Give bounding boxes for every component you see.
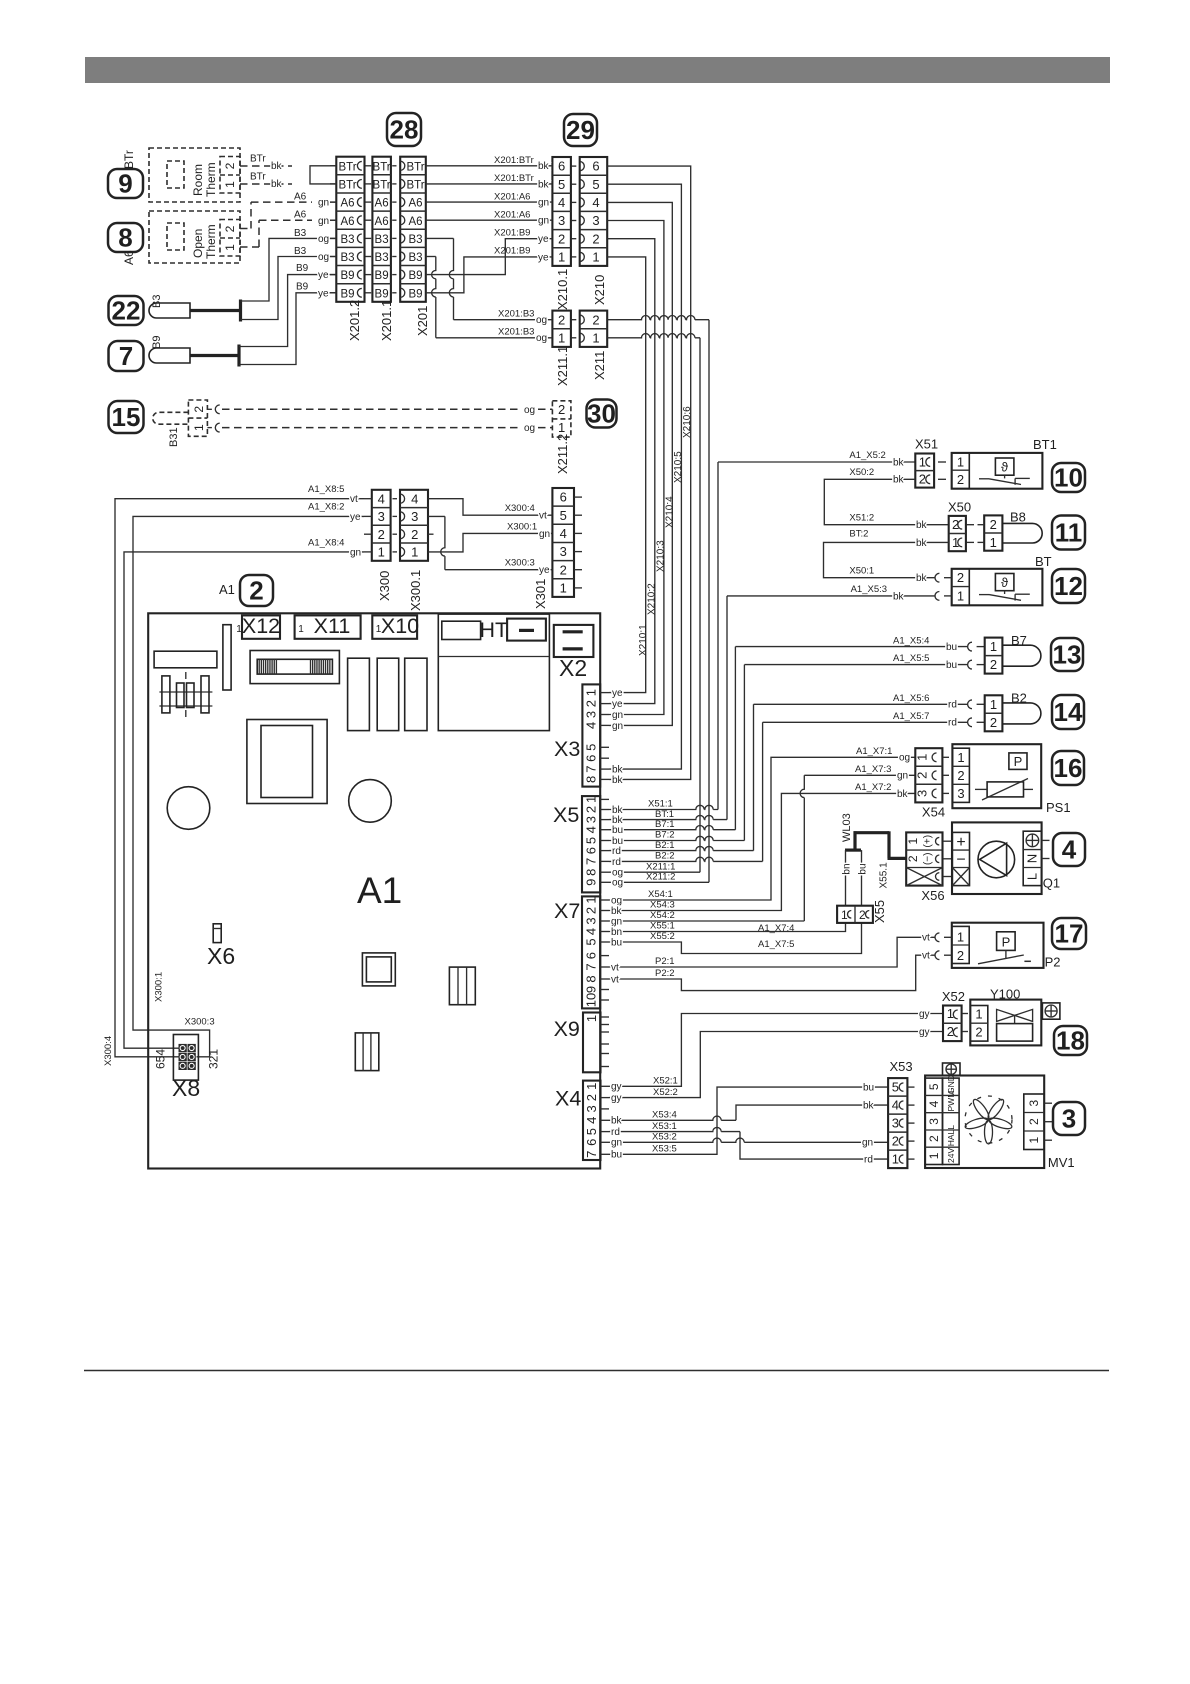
component tall rect 3 (405, 658, 427, 730)
svg-text:bk: bk (916, 573, 928, 584)
room thermostat box (149, 148, 240, 202)
svg-text:HT: HT (480, 618, 509, 642)
svg-text:3: 3 (584, 917, 599, 924)
svg-text:vt: vt (922, 933, 930, 944)
svg-text:1: 1 (906, 838, 920, 845)
svg-text:vt: vt (611, 962, 619, 973)
svg-text:A6: A6 (294, 192, 307, 203)
wire X201:B3 row6 to X211.1:1 (426, 256, 436, 258)
svg-text:gn: gn (612, 710, 623, 721)
svg-text:Room: Room (191, 164, 205, 196)
svg-text:X2: X2 (559, 655, 587, 681)
svg-text:1: 1 (592, 330, 599, 345)
svg-text:1: 1 (990, 535, 997, 550)
svg-text:B3: B3 (408, 252, 422, 264)
wire BTr pin2 (bk) (240, 165, 292, 167)
badge 3 (1053, 1102, 1085, 1135)
wire B3 og row6 (241, 257, 337, 320)
svg-text:2: 2 (378, 527, 385, 542)
open therm pin header 1 2 (220, 220, 240, 257)
svg-text:1: 1 (957, 930, 964, 945)
svg-text:X201.1: X201.1 (379, 300, 394, 341)
svg-text:X211:2: X211:2 (646, 872, 675, 883)
wire B3 og row5 (241, 238, 337, 301)
component 3-cell B (355, 1033, 379, 1071)
svg-text:gn: gn (539, 529, 550, 540)
svg-text:A1_X5:2: A1_X5:2 (849, 450, 885, 461)
connector X201.2 (336, 157, 364, 302)
svg-text:bk: bk (916, 520, 928, 531)
svg-text:BTr: BTr (406, 180, 424, 192)
svg-text:5: 5 (584, 837, 599, 844)
svg-text:5: 5 (584, 744, 599, 751)
svg-text:9: 9 (584, 986, 599, 993)
svg-text:3: 3 (584, 711, 599, 718)
svg-text:1: 1 (957, 750, 964, 765)
open therm box (149, 211, 240, 263)
svg-text:4: 4 (584, 826, 599, 833)
wire X4:2 X52:2 gy (609, 1032, 943, 1098)
wire X201:BTr row1 (426, 165, 553, 167)
svg-text:X210:5: X210:5 (673, 451, 684, 483)
svg-text:A6: A6 (340, 216, 354, 228)
svg-text:A6: A6 (375, 216, 389, 228)
component slide connector (250, 651, 339, 684)
svg-text:A1_X8:4: A1_X8:4 (308, 537, 344, 548)
svg-text:rd: rd (948, 700, 957, 711)
wire A1_X8:2 ye to X8:2 (133, 516, 364, 1056)
svg-text:8: 8 (118, 223, 132, 253)
connector X211.1 (552, 311, 571, 347)
svg-text:B2:2: B2:2 (655, 851, 675, 862)
wire X5:4 B7:1 bu (609, 826, 735, 830)
svg-text:B3: B3 (340, 234, 354, 246)
svg-text:2: 2 (957, 768, 964, 783)
svg-text:A6: A6 (294, 210, 307, 221)
svg-text:og: og (318, 252, 329, 263)
svg-text:vt: vt (350, 494, 358, 505)
svg-text:X55: X55 (872, 900, 887, 923)
svg-text:BT: BT (1035, 554, 1052, 569)
svg-text:og: og (318, 234, 329, 245)
svg-text:B3: B3 (294, 246, 307, 257)
svg-text:1: 1 (558, 330, 565, 345)
svg-text:X5: X5 (553, 803, 579, 827)
svg-text:X53:1: X53:1 (652, 1121, 677, 1132)
connector X210 (580, 157, 608, 266)
svg-text:1: 1 (957, 455, 964, 470)
connector X9 (583, 1013, 601, 1073)
svg-text:1: 1 (990, 697, 997, 712)
svg-text:X54: X54 (922, 805, 945, 820)
svg-text:B9: B9 (340, 270, 354, 282)
svg-text:MV1: MV1 (1048, 1155, 1075, 1170)
svg-text:B2:1: B2:1 (655, 840, 675, 851)
pump unit Q1 connector X55.1 (906, 832, 942, 885)
svg-text:BTr: BTr (373, 161, 391, 173)
pump Q1 (952, 822, 1042, 894)
wire BTr pin1 (bk) (240, 183, 292, 185)
svg-text:1: 1 (915, 754, 930, 761)
svg-text:X300: X300 (377, 571, 392, 601)
badge 18 (1054, 1026, 1087, 1055)
svg-text:bu: bu (611, 937, 622, 948)
connector MV1 right (1024, 1094, 1044, 1150)
svg-text:7: 7 (584, 1151, 599, 1158)
svg-text:3: 3 (927, 1118, 941, 1125)
svg-text:X52:1: X52:1 (653, 1076, 678, 1087)
svg-text:B3: B3 (375, 252, 389, 264)
svg-text:og: og (524, 423, 535, 434)
svg-text:5: 5 (560, 508, 567, 523)
svg-text:1: 1 (583, 796, 598, 803)
svg-text:2: 2 (927, 1135, 941, 1142)
svg-text:1: 1 (892, 1152, 899, 1167)
svg-text:1: 1 (957, 588, 964, 603)
svg-text:X55:2: X55:2 (650, 931, 675, 942)
wire X210:5 (607, 184, 681, 769)
svg-text:X210: X210 (592, 275, 607, 305)
svg-text:5: 5 (592, 177, 599, 192)
svg-text:11: 11 (1055, 518, 1083, 548)
wire X5:5 B7:2 bu (609, 836, 744, 840)
svg-text:bk: bk (271, 179, 283, 190)
wire X201:B9 row8 to X210.1:1 (426, 257, 553, 293)
svg-text:12: 12 (1054, 571, 1083, 601)
svg-text:A1_X8:5: A1_X8:5 (308, 484, 344, 495)
svg-text:HALL: HALL (946, 1125, 956, 1147)
connector X7 (582, 896, 600, 1008)
svg-text:L: L (1025, 873, 1040, 880)
svg-text:X300:4: X300:4 (103, 1036, 114, 1066)
svg-text:X201:B3: X201:B3 (498, 327, 534, 338)
svg-text:bk: bk (611, 906, 623, 917)
svg-text:6: 6 (558, 159, 565, 174)
svg-text:7: 7 (584, 765, 599, 772)
svg-text:A1_X7:1: A1_X7:1 (856, 746, 892, 757)
svg-text:7: 7 (584, 963, 599, 970)
fan MV1 (925, 1076, 1044, 1169)
svg-text:2: 2 (990, 517, 997, 532)
svg-text:7: 7 (119, 341, 133, 371)
svg-text:B9: B9 (151, 336, 163, 349)
svg-text:2: 2 (592, 231, 599, 246)
svg-text:2: 2 (558, 231, 565, 246)
svg-text:2: 2 (223, 162, 237, 169)
svg-text:2: 2 (411, 527, 418, 542)
svg-text:bk: bk (612, 775, 624, 786)
svg-text:16: 16 (1054, 753, 1083, 783)
wire X201:B3 row5 to X211.1:2 (426, 237, 454, 239)
svg-text:10: 10 (1054, 463, 1083, 493)
svg-text:2: 2 (906, 855, 920, 862)
HT block (438, 614, 549, 731)
svg-text:X3: X3 (554, 737, 580, 761)
svg-text:6: 6 (584, 952, 599, 959)
svg-text:X51: X51 (915, 437, 938, 452)
svg-text:vt: vt (539, 511, 547, 522)
connector X201 (400, 157, 426, 302)
wire X300:1 gn to X301:4 (428, 533, 552, 552)
wire X201:A6 row4 (426, 219, 553, 221)
svg-text:X301: X301 (533, 579, 548, 609)
svg-text:4: 4 (592, 195, 599, 210)
badge 8 (108, 223, 143, 252)
svg-text:A6: A6 (375, 198, 389, 210)
component X6 (213, 924, 221, 943)
svg-text:X201:A6: X201:A6 (494, 209, 530, 220)
svg-text:A6: A6 (408, 198, 422, 210)
svg-text:X300:3: X300:3 (185, 1017, 215, 1028)
svg-text:gn: gn (611, 916, 622, 927)
svg-text:1: 1 (990, 639, 997, 654)
svg-text:B7:1: B7:1 (655, 819, 675, 830)
svg-text:1: 1 (192, 424, 206, 431)
connector X10 (372, 615, 417, 638)
svg-text:1: 1 (927, 1152, 941, 1159)
svg-text:X201:B9: X201:B9 (494, 246, 530, 257)
svg-text:X50:2: X50:2 (849, 467, 874, 478)
svg-text:17: 17 (1055, 919, 1084, 949)
stub X300.1:2 (428, 533, 434, 535)
badge 22 (109, 296, 144, 325)
svg-text:BTr: BTr (338, 180, 356, 192)
footer rule (84, 1370, 1109, 1372)
svg-text:2: 2 (919, 472, 926, 487)
svg-text:5: 5 (927, 1083, 941, 1090)
svg-text:B3: B3 (294, 228, 307, 239)
svg-text:X201: X201 (415, 306, 430, 336)
svg-text:X12: X12 (242, 614, 280, 638)
svg-text:2: 2 (584, 1094, 599, 1101)
svg-text:X201:B3: X201:B3 (498, 309, 534, 320)
svg-text:A6: A6 (340, 198, 354, 210)
svg-text:X51:2: X51:2 (849, 513, 874, 524)
component tall rect 2 (377, 658, 399, 730)
badge 16 (1052, 751, 1084, 785)
svg-text:gn: gn (318, 216, 329, 227)
wire X5:7 B2:2 rd (609, 857, 763, 861)
svg-text:3: 3 (584, 816, 599, 823)
svg-text:15: 15 (112, 402, 141, 432)
svg-text:rd: rd (612, 846, 621, 857)
svg-text:X52: X52 (942, 989, 965, 1004)
connector X4 (583, 1081, 601, 1160)
svg-text:5: 5 (892, 1080, 899, 1095)
svg-text:P2:1: P2:1 (655, 956, 675, 967)
svg-text:1: 1 (558, 420, 565, 435)
svg-text:24V: 24V (946, 1148, 956, 1163)
component relay square (247, 720, 327, 804)
ground symbol Y100 (1042, 1003, 1060, 1019)
wire X5:3 BT:1 bk (609, 815, 727, 819)
svg-text:2: 2 (1027, 1118, 1041, 1125)
svg-text:9: 9 (584, 879, 599, 886)
component thin vertical (223, 625, 231, 690)
connector X5 (582, 796, 600, 892)
svg-text:2: 2 (558, 312, 565, 327)
svg-text:B9: B9 (296, 263, 309, 274)
svg-text:gn: gn (318, 198, 329, 209)
svg-text:6: 6 (560, 490, 567, 505)
wire X210:2 (607, 239, 655, 704)
svg-text:3: 3 (1027, 1100, 1041, 1107)
svg-text:X7: X7 (554, 899, 580, 923)
wire X51:2 to X50:2 (824, 479, 948, 524)
connector X12 (242, 615, 280, 638)
svg-text:3: 3 (584, 1105, 599, 1112)
svg-text:3: 3 (558, 213, 565, 228)
svg-text:ye: ye (318, 270, 329, 281)
svg-text:A1_X7:4: A1_X7:4 (758, 923, 794, 934)
badge 7 (109, 341, 144, 371)
svg-text:X55:1: X55:1 (650, 921, 675, 932)
svg-text:B3: B3 (408, 234, 422, 246)
svg-text:321: 321 (207, 1049, 221, 1069)
wire X7:8 P2:2 vt (609, 955, 935, 990)
svg-text:gy: gy (611, 1082, 622, 1093)
svg-text:X53:4: X53:4 (652, 1110, 677, 1121)
svg-text:bk: bk (897, 789, 909, 800)
svg-text:9: 9 (118, 169, 132, 199)
svg-text:3: 3 (892, 1116, 899, 1131)
svg-text:og: og (611, 895, 622, 906)
badge 9 (108, 169, 143, 198)
connector X300 (372, 490, 391, 561)
connector X55 (837, 906, 873, 923)
svg-text:4: 4 (927, 1100, 941, 1107)
svg-text:2: 2 (584, 907, 599, 914)
wire A6 pin1 (gn) (240, 220, 312, 247)
svg-text:1: 1 (584, 1083, 599, 1090)
svg-text:4: 4 (892, 1098, 899, 1113)
svg-text:6: 6 (584, 1139, 599, 1146)
connector X8 (173, 1035, 198, 1081)
svg-text:X50: X50 (948, 500, 971, 515)
component circle 2 (349, 780, 392, 823)
svg-text:1: 1 (298, 624, 304, 635)
badge 2 (240, 575, 273, 606)
svg-text:3: 3 (378, 509, 385, 524)
svg-text:22: 22 (112, 296, 141, 326)
wire X210:4 (607, 202, 672, 725)
svg-text:A1_X5:3: A1_X5:3 (851, 584, 887, 595)
wire X7:2 X54:3 bk (609, 793, 915, 910)
wire X7:4 X55:1 bn (609, 923, 846, 932)
connector X211.2 (dashed) (552, 401, 571, 437)
connector X3 (582, 684, 600, 786)
wire A6 pin2 (gn) (240, 202, 312, 228)
connector X2 (554, 625, 594, 657)
svg-text:X201:B9: X201:B9 (494, 228, 530, 239)
svg-text:ye: ye (539, 565, 550, 576)
svg-text:2: 2 (584, 700, 599, 707)
svg-text:X9: X9 (554, 1017, 580, 1041)
svg-text:BTr: BTr (122, 150, 136, 169)
wire og dashed to X211.2:2 (222, 408, 518, 410)
svg-text:4: 4 (558, 195, 565, 210)
wire X4:4 X53:4 bk (609, 1116, 736, 1120)
svg-text:gn: gn (611, 1138, 622, 1149)
badge 13 (1051, 638, 1083, 671)
svg-text:rd: rd (948, 718, 957, 729)
svg-text:BTr: BTr (373, 180, 391, 192)
svg-text:2: 2 (892, 1134, 899, 1149)
svg-text:X300:4: X300:4 (505, 503, 535, 514)
svg-text:BTr: BTr (250, 172, 266, 183)
wire X4:7 X53:5 bu (609, 1087, 888, 1154)
wire X211:2 to X5:9 (607, 316, 709, 320)
svg-text:X11: X11 (314, 614, 351, 638)
component transformer (159, 691, 212, 693)
svg-text:bn: bn (611, 927, 622, 938)
room therm pin header 1 2 (220, 157, 240, 194)
svg-text:BTr: BTr (338, 161, 356, 173)
svg-text:1: 1 (558, 250, 565, 265)
svg-text:X300:1: X300:1 (507, 521, 537, 532)
svg-text:30: 30 (587, 399, 616, 429)
svg-text:10: 10 (584, 993, 599, 1007)
svg-text:vt: vt (922, 951, 930, 962)
svg-text:A1: A1 (219, 582, 235, 597)
wire X201:BTr row2 (426, 183, 553, 185)
svg-text:og: og (899, 753, 910, 764)
svg-text:2: 2 (957, 948, 964, 963)
svg-text:bu: bu (946, 660, 957, 671)
svg-text:WL03: WL03 (841, 813, 853, 842)
svg-text:6: 6 (592, 159, 599, 174)
badge 29 (564, 114, 597, 146)
wire X7:3 X54:2 gn (609, 920, 804, 922)
svg-text:X210:4: X210:4 (665, 496, 676, 528)
fan blades (964, 1096, 1013, 1144)
svg-text:X50:1: X50:1 (849, 566, 874, 577)
svg-text:2: 2 (223, 225, 237, 232)
svg-text:X4: X4 (555, 1087, 581, 1111)
svg-text:2: 2 (990, 715, 997, 730)
connector X211 (580, 311, 608, 347)
svg-text:ye: ye (538, 234, 549, 245)
svg-text:1: 1 (919, 455, 926, 470)
svg-text:A1_X5:4: A1_X5:4 (893, 635, 929, 646)
svg-text:vt: vt (611, 974, 619, 985)
svg-text:bu: bu (863, 1083, 874, 1094)
svg-text:X210:1: X210:1 (638, 624, 649, 656)
svg-text:X201:BTr: X201:BTr (494, 173, 534, 184)
badge 11 (1052, 516, 1085, 550)
svg-text:ye: ye (612, 688, 623, 699)
wire X7:1 X54:1 og (609, 757, 915, 900)
svg-text:B8: B8 (1010, 510, 1026, 525)
svg-text:5: 5 (558, 177, 565, 192)
svg-text:gn: gn (538, 216, 549, 227)
svg-text:og: og (536, 315, 547, 326)
svg-text:X211.1: X211.1 (555, 346, 570, 386)
svg-text:ye: ye (538, 252, 549, 263)
svg-text:X300.1: X300.1 (408, 570, 423, 611)
wire X210:1 (607, 257, 646, 693)
wire X4:6 X53:2 gn (609, 1138, 888, 1142)
svg-text:5: 5 (584, 1128, 599, 1135)
svg-text:bu: bu (857, 863, 868, 874)
svg-text:A1_X7:2: A1_X7:2 (855, 782, 891, 793)
svg-text:7: 7 (583, 858, 598, 865)
svg-text:X55.1: X55.1 (879, 862, 890, 889)
svg-text:18: 18 (1056, 1026, 1085, 1056)
component tall rect 1 (348, 658, 370, 730)
svg-text:X201:BTr: X201:BTr (494, 155, 534, 166)
svg-text:3: 3 (1062, 1104, 1076, 1134)
